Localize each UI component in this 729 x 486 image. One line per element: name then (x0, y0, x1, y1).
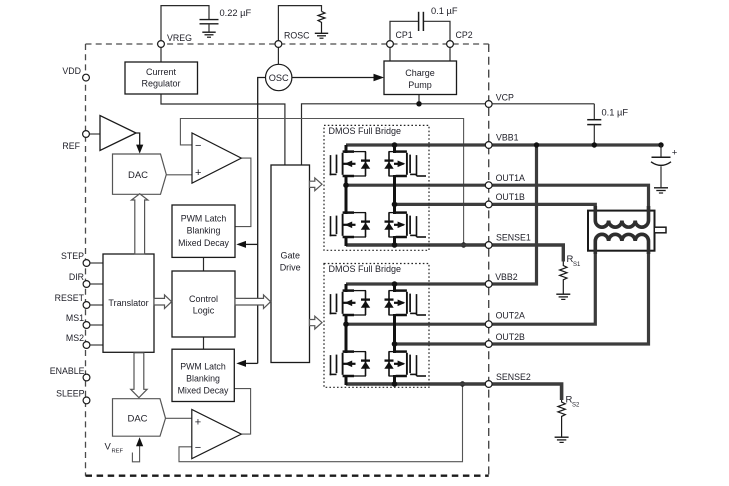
op-amp OSC circle (266, 64, 292, 90)
wire comparator1 output to upper PWM latch (235, 158, 251, 227)
arrowhead into upper PWM latch (236, 241, 246, 248)
wire DAC2 output to comparator2 plus (166, 417, 192, 419)
net OUT1A (346, 185, 649, 212)
svg-text:Translator: Translator (108, 298, 148, 308)
transistor low-side B bridge1 (384, 213, 426, 237)
svg-text:Mixed Decay: Mixed Decay (178, 386, 229, 396)
net VBB1 to VBB2 vertical link (535, 145, 538, 286)
pin VBB1 (485, 142, 492, 149)
motor winding phase 1 coil (595, 206, 648, 227)
svg-text:CP1: CP1 (396, 30, 413, 40)
svg-text:SENSE2: SENSE2 (496, 372, 531, 382)
arrowhead into charge pump (374, 74, 385, 82)
block PWM latch lower (172, 349, 234, 401)
svg-text:Regulator: Regulator (141, 79, 180, 89)
wire OSC output left and down to PWM latches (258, 78, 266, 364)
junction bridge1 VBB1 (392, 142, 398, 148)
svg-text:−: − (195, 442, 201, 454)
svg-text:OSC: OSC (269, 73, 289, 83)
svg-text:VCP: VCP (496, 92, 514, 102)
arrowhead into lower PWM latch (236, 360, 246, 367)
pin MS2 (83, 342, 90, 349)
transistor low-side B bridge2 (384, 352, 426, 376)
svg-text:VREG: VREG (167, 33, 192, 43)
block current regulator (125, 62, 198, 94)
transistor high-side A bridge2 (330, 291, 371, 315)
svg-text:0.1 µF: 0.1 µF (602, 108, 629, 118)
pin ENABLE (83, 374, 90, 381)
wire DAC1 output to comparator1 plus (166, 174, 192, 176)
wire REF pin to buffer (89, 133, 100, 135)
wire 0.1uF VCP bypass cap lead down (593, 104, 595, 120)
svg-text:OUT2A: OUT2A (496, 311, 525, 321)
junction bridge1 OUT1A node (343, 182, 349, 188)
junction bridge1 OUT1B node (392, 202, 398, 208)
IC boundary dashed border left (85, 44, 87, 476)
svg-text:S2: S2 (572, 403, 580, 409)
svg-text:PWM Latch: PWM Latch (180, 361, 226, 371)
block arrow gate drive to bridge1 (310, 178, 323, 191)
DMOS full bridge 1 dotted box (324, 125, 429, 250)
block control logic (172, 271, 235, 337)
IC boundary dashed border top (86, 43, 489, 45)
op-amp comparator 2 (192, 410, 242, 459)
block gate drive (271, 165, 310, 363)
wire VREF hook to DAC2 (132, 444, 139, 462)
pin OUT2B (485, 341, 492, 348)
svg-text:OUT2B: OUT2B (496, 332, 525, 342)
wire control logic to lower PWM latch (203, 337, 205, 349)
svg-text:DMOS Full Bridge: DMOS Full Bridge (329, 126, 402, 136)
svg-text:Gate: Gate (280, 250, 300, 260)
wire MS2 to translator (90, 344, 103, 346)
pin VDD (83, 74, 90, 81)
motor winding box (588, 211, 655, 251)
svg-text:0.1 µF: 0.1 µF (431, 6, 458, 16)
svg-text:SLEEP: SLEEP (56, 389, 84, 399)
svg-text:V: V (105, 442, 112, 453)
junction VBB1 rail dots (534, 142, 539, 147)
svg-text:PWM Latch: PWM Latch (181, 214, 227, 224)
svg-text:DAC: DAC (128, 170, 148, 181)
wire ROSC pin down to OSC (277, 47, 279, 64)
arrowhead VREF into DAC2 (136, 437, 143, 446)
transistor high-side A bridge1 (330, 152, 371, 176)
junction feedback to SENSE1 (461, 242, 466, 247)
junction feedback to SENSE2 (460, 381, 465, 386)
transistor low-side A bridge2 (330, 352, 371, 376)
svg-text:Current: Current (146, 67, 177, 77)
op-amp comparator 1 (192, 133, 241, 183)
bridge2 left half-bridge vertical leads (345, 284, 348, 385)
junction bridge1 SENSE1 node (392, 242, 398, 248)
pin ROSC (275, 41, 282, 48)
wire OSC to charge pump (292, 77, 377, 79)
transistor high-side B bridge2 (384, 291, 426, 315)
DAC 2 (113, 399, 166, 437)
ground for electrolytic cap (654, 188, 668, 193)
electrolytic capacitor plates (651, 157, 671, 187)
svg-text:ROSC: ROSC (284, 31, 310, 41)
pin DIR (83, 281, 90, 288)
svg-text:Charge: Charge (405, 68, 435, 78)
wire CP1 up and capacitor 0.1uF to CP2 (390, 21, 419, 41)
svg-text:Control: Control (189, 294, 218, 304)
electrolytic capacitor lead from VBB1 (660, 145, 662, 157)
svg-text:ENABLE: ENABLE (50, 366, 85, 376)
ground for 0.22uF cap (202, 32, 215, 37)
svg-text:CP2: CP2 (456, 30, 473, 40)
svg-text:0.22 µF: 0.22 µF (220, 8, 252, 18)
ground for RS2 (555, 437, 569, 442)
pin VCP (485, 101, 492, 108)
svg-text:MS2: MS2 (66, 333, 84, 343)
wire OSC branch to lower PWM latch (244, 362, 258, 364)
svg-text:VDD: VDD (62, 66, 81, 76)
wire MS1 to translator (90, 324, 103, 326)
IC boundary dashed border right (488, 44, 490, 476)
net SENSE2 (346, 384, 562, 400)
pin OUT1B (485, 201, 492, 208)
wire CP2 down to charge pump (449, 47, 451, 61)
block PWM latch upper (172, 205, 235, 257)
capacitor 0.1uF VCP-VBB1 plates (587, 120, 601, 145)
svg-text:MS1: MS1 (66, 313, 84, 323)
wire charge pump output stub (418, 95, 420, 104)
block charge pump (384, 61, 457, 95)
wire STEP to translator (90, 262, 103, 264)
svg-text:Logic: Logic (193, 306, 215, 316)
net OUT1B (395, 204, 596, 212)
svg-text:DIR: DIR (69, 272, 84, 282)
ground for ROSC resistor (315, 33, 328, 38)
junction bridge2 OUT2B node (392, 341, 398, 347)
net OUT2A (346, 250, 595, 324)
block arrow translator to DAC1 (132, 194, 148, 254)
wire comparator2 output to lower PWM latch (234, 389, 250, 435)
bridge1 left half-bridge vertical leads (345, 145, 348, 246)
net OUT2B (395, 250, 649, 344)
wire VREG pin down to current regulator (160, 47, 162, 62)
arrowhead into DAC1 (136, 145, 143, 154)
resistor RS1 zigzag (560, 262, 567, 294)
svg-text:S1: S1 (573, 262, 581, 268)
transistor high-side B bridge1 (384, 152, 426, 176)
pin RESET (83, 302, 90, 309)
net SENSE1 (346, 245, 563, 262)
svg-text:Drive: Drive (280, 262, 301, 272)
pin VBB2 (485, 281, 492, 288)
motor shaft stub (654, 227, 666, 233)
transistor low-side A bridge1 (330, 213, 371, 237)
resistor RS2 zigzag (558, 400, 565, 437)
svg-text:SENSE1: SENSE1 (496, 232, 531, 242)
svg-text:+: + (195, 167, 201, 179)
pin OUT2A (485, 321, 492, 328)
svg-text:VBB1: VBB1 (496, 133, 519, 143)
svg-text:+: + (195, 417, 201, 429)
wire VREG pin up to bypass cap (161, 6, 209, 41)
svg-text:DAC: DAC (127, 413, 147, 424)
wire comparator1 minus feedback to SENSE1 (180, 119, 463, 244)
pin CP2 (447, 41, 454, 48)
capacitor CP plates (419, 12, 424, 31)
svg-text:Mixed Decay: Mixed Decay (178, 238, 229, 248)
wire CP1 down to charge pump (389, 47, 391, 61)
IC boundary dashed border bottom (86, 475, 489, 477)
svg-text:Pump: Pump (408, 80, 432, 90)
svg-text:+: + (672, 147, 678, 158)
pin VREG (158, 41, 165, 48)
svg-text:Blanking: Blanking (186, 374, 220, 384)
pin CP1 (387, 41, 394, 48)
pin STEP (83, 260, 90, 267)
wire RESET to translator (90, 304, 103, 306)
op-amp REF buffer triangle (100, 116, 136, 151)
capacitor 0.22uF plates (200, 20, 219, 32)
wire REF buffer output to DAC1 (136, 133, 140, 147)
net VBB2 (346, 282, 538, 285)
svg-text:Blanking: Blanking (187, 226, 221, 236)
pin SENSE2 (485, 381, 492, 388)
svg-text:REF: REF (62, 141, 80, 151)
motor winding phase 2 coil (595, 234, 648, 254)
block arrow translator to DAC2 (131, 353, 147, 398)
net VBB1 thick rail (346, 143, 661, 146)
wire ROSC pin up to resistor (278, 6, 321, 41)
resistor ROSC zigzag (318, 11, 325, 33)
svg-text:−: − (195, 140, 201, 152)
junction bridge2 OUT2A node (343, 321, 349, 327)
wire OSC branch to upper PWM latch (244, 243, 258, 245)
ground for RS1 (556, 294, 570, 299)
svg-text:STEP: STEP (61, 251, 84, 261)
bridge1 right half-bridge vertical leads (393, 145, 396, 246)
block arrow gate drive to bridge2 (310, 316, 323, 329)
DAC 1 (113, 154, 167, 194)
pin SENSE1 (485, 242, 492, 249)
block translator (103, 254, 154, 352)
wire comparator2 minus feedback to SENSE2 (179, 386, 463, 462)
svg-text:DMOS Full Bridge: DMOS Full Bridge (329, 264, 402, 274)
pin REF (83, 131, 90, 138)
wire DIR to translator (90, 283, 103, 285)
svg-text:VBB2: VBB2 (495, 272, 518, 282)
bridge2 right half-bridge vertical leads (393, 284, 396, 385)
svg-text:RESET: RESET (55, 293, 85, 303)
junction charge pump to VCP (416, 101, 421, 106)
block arrow translator to control logic (154, 295, 172, 309)
wire current regulator output to gate drive (161, 94, 285, 165)
svg-text:REF: REF (112, 449, 124, 455)
junction bridge2 SENSE2 node (392, 381, 398, 387)
block arrow control logic to gate drive (235, 295, 271, 309)
wire upper PWM latch to control logic (203, 257, 205, 271)
pin OUT1A (485, 182, 492, 189)
DMOS full bridge 2 dotted box (324, 264, 429, 388)
svg-text:OUT1B: OUT1B (496, 192, 525, 202)
pin MS1 (83, 322, 90, 329)
pin SLEEP (83, 397, 90, 404)
junction bridge2 VBB2 (392, 281, 398, 287)
wire VCP net to gate drive and right to bypass cap (302, 104, 595, 165)
svg-text:OUT1A: OUT1A (496, 173, 525, 183)
